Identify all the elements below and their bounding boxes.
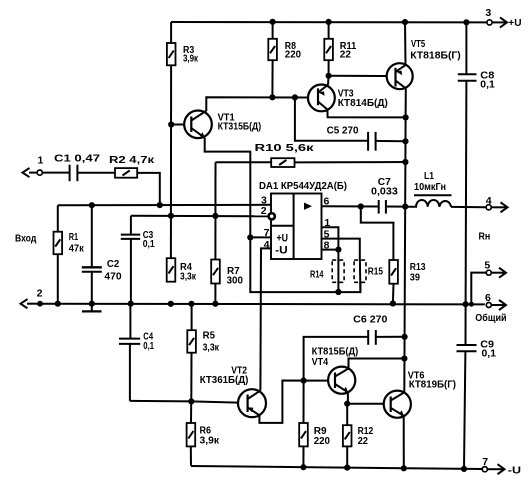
svg-text:3,9к: 3,9к	[200, 435, 220, 447]
svg-text:3,3к: 3,3к	[180, 271, 197, 283]
label R12 value	[358, 425, 374, 447]
node top rail C8	[463, 19, 469, 25]
node VT4 collector output col	[401, 355, 407, 361]
svg-text:0,1: 0,1	[143, 340, 154, 352]
label VT5 type	[410, 38, 461, 62]
label pin 3	[261, 195, 267, 207]
svg-text:39: 39	[410, 271, 420, 283]
label DA1 type	[259, 180, 347, 192]
wire VT5 emitter / output column	[404, 89, 406, 393]
capacitor C5	[368, 132, 376, 151]
label R2 value	[109, 154, 155, 166]
svg-text:1: 1	[38, 154, 44, 166]
label C3 value	[143, 229, 155, 250]
transistor VT3	[308, 85, 335, 112]
wire DA1 pin1	[322, 227, 339, 249]
wire +U top rail	[171, 21, 487, 23]
label R11 value	[340, 40, 357, 61]
node output col VT3	[403, 114, 409, 120]
resistor R15 (dashed)	[354, 260, 366, 282]
wire C6 branch	[304, 337, 405, 381]
label terminal 1	[38, 154, 44, 166]
label pin 2	[261, 205, 267, 217]
label pin 8	[324, 239, 330, 251]
transistor VT6	[384, 391, 411, 418]
label VT2 type	[200, 365, 249, 386]
label R8 value	[285, 40, 301, 61]
svg-text:0,1: 0,1	[143, 238, 155, 250]
capacitor C6	[368, 330, 376, 345]
svg-text:КТ819Б(Г): КТ819Б(Г)	[409, 379, 456, 391]
label C8 value	[480, 70, 495, 91]
node C6 output col	[402, 334, 408, 340]
node rail C2	[89, 301, 95, 307]
svg-text:R2 4,7к: R2 4,7к	[109, 154, 155, 166]
node R8 / VT1 collector	[269, 94, 275, 100]
svg-text:6: 6	[485, 292, 491, 304]
label R7 value	[227, 265, 243, 287]
terminal 2	[21, 299, 43, 308]
label R4 value	[180, 261, 197, 283]
node B R7	[212, 213, 218, 219]
terminal 3 (+U)	[487, 17, 507, 27]
svg-text:5: 5	[484, 259, 490, 271]
resistor R4	[167, 258, 176, 282]
svg-text:220: 220	[314, 435, 330, 447]
svg-text:2: 2	[261, 205, 267, 217]
label VT6 type	[408, 369, 456, 390]
label C4 value	[143, 330, 154, 352]
terminal 6 (Общий)	[486, 300, 506, 310]
label VT3 type	[338, 88, 388, 110]
svg-text:КТ818Б(Г): КТ818Б(Г)	[410, 50, 461, 62]
label Rн	[479, 230, 491, 242]
wire VT6 emitter to -U rail	[403, 416, 405, 468]
label pin 4	[264, 239, 270, 251]
svg-text:R1: R1	[69, 231, 79, 243]
node output col C5	[402, 138, 408, 144]
capacitor C2	[82, 267, 102, 271]
node top rail R8	[270, 19, 276, 25]
svg-text:DA1 КР544УД2А(Б): DA1 КР544УД2А(Б)	[259, 180, 347, 192]
wire R1 column	[57, 254, 59, 304]
op-amp DA1 box	[271, 194, 322, 260]
svg-text:+U: +U	[277, 232, 289, 244]
wire inverting node B (pin 2 net)	[131, 215, 269, 218]
label R3 value	[183, 44, 199, 65]
resistor R1	[54, 232, 63, 255]
transistor VT1	[184, 111, 212, 139]
svg-text:Вход: Вход	[15, 232, 37, 244]
node rail R5	[188, 301, 194, 307]
wire R12 column	[346, 404, 348, 468]
resistor R5	[187, 330, 196, 353]
wire VT1 base stub	[171, 124, 184, 126]
resistor R9	[299, 423, 308, 446]
svg-text:R10 5,6к: R10 5,6к	[255, 142, 315, 154]
resistor R6	[187, 423, 196, 446]
label terminal 5	[484, 259, 490, 271]
wire VT3 emitter riser	[327, 76, 330, 85]
inductor L1	[405, 195, 451, 207]
wire VT2 emitter to VT4 base	[259, 381, 328, 423]
wire DA1 pin7 stub	[250, 236, 271, 238]
svg-text:-U: -U	[508, 464, 521, 476]
wire C3 C4 column	[130, 216, 131, 401]
resistor R14 (dashed)	[332, 260, 344, 282]
node bottom rail R9	[300, 464, 306, 470]
wire VT1 collector to VT3 base	[206, 97, 307, 111]
svg-text:VT4: VT4	[312, 356, 329, 368]
label C1 value	[54, 152, 100, 164]
label C2 value	[104, 258, 121, 282]
resistor R10	[271, 158, 294, 167]
terminal 7 (-U)	[482, 464, 504, 474]
svg-text:КТ361Б(Д): КТ361Б(Д)	[200, 374, 249, 386]
svg-text:C2: C2	[107, 258, 119, 270]
svg-text:R15: R15	[368, 265, 383, 277]
label pin 5	[324, 228, 330, 240]
node bottom rail R12	[344, 465, 350, 471]
node rail C8 C9	[463, 301, 469, 307]
wire terminal1 to C1	[42, 172, 69, 174]
op-amp DA1 pin2 inversion bubble	[269, 213, 275, 219]
svg-text:6: 6	[324, 195, 330, 207]
node B R4	[168, 213, 174, 219]
wire R5 column	[190, 304, 192, 402]
wire VT1 emitter / DA1 pin7 / R14 R15 bottom	[205, 138, 361, 292]
label R6 value	[200, 424, 220, 446]
wire -U bottom rail	[191, 466, 482, 469]
label C5 value	[327, 125, 359, 137]
label VT1 type	[218, 111, 262, 132]
wire input node A (pin 3 net)	[58, 205, 271, 232]
transistor VT4	[328, 367, 355, 394]
node rail R1	[55, 301, 61, 307]
transistor VT2	[238, 389, 266, 417]
wire R15 lead through	[359, 260, 362, 292]
svg-text:0,033: 0,033	[371, 185, 398, 197]
svg-text:0,1: 0,1	[480, 78, 495, 90]
node rail R4	[168, 301, 174, 307]
wire R9 column	[302, 381, 304, 468]
label +U	[508, 17, 521, 29]
svg-text:C6 270: C6 270	[353, 313, 387, 325]
svg-text:22: 22	[358, 435, 369, 447]
terminal 1 (input)	[23, 168, 43, 177]
wire R14 lead through	[337, 250, 339, 293]
wire R13 offshoot	[361, 207, 394, 304]
svg-text:3: 3	[485, 7, 491, 19]
label C7 value	[371, 176, 398, 197]
node pin6 / R13 offshoot	[358, 203, 364, 209]
resistor R12	[343, 425, 352, 446]
label terminal 2	[37, 288, 43, 300]
wire terminal 5 riser	[471, 273, 486, 305]
svg-text:7: 7	[482, 456, 488, 468]
svg-text:300: 300	[227, 275, 243, 287]
resistor R8	[268, 39, 277, 60]
wire VT4 collector to output column	[349, 359, 405, 369]
svg-text:22: 22	[340, 49, 351, 61]
resistor R2	[115, 168, 137, 178]
svg-text:КТ814Б(Д): КТ814Б(Д)	[338, 97, 388, 109]
svg-text:2: 2	[37, 288, 43, 300]
svg-text:47к: 47к	[69, 242, 85, 254]
svg-text:4: 4	[264, 239, 270, 251]
wire R8 column	[271, 22, 273, 98]
wire C9 column	[464, 304, 466, 469]
resistor R11	[324, 39, 333, 60]
label R14	[310, 268, 324, 280]
label DA1 -U	[275, 245, 288, 257]
node pin1 pin8	[335, 247, 341, 253]
svg-text:R5: R5	[203, 330, 216, 342]
svg-text:7: 7	[264, 227, 270, 239]
wire VT3 base node to VT5 base	[329, 75, 387, 77]
svg-text:C1 0,47: C1 0,47	[54, 152, 100, 164]
node A R2	[157, 202, 163, 208]
svg-text:R14: R14	[310, 268, 324, 280]
node VT1 base	[168, 121, 174, 127]
label Общий	[475, 312, 506, 324]
label L1 value	[414, 170, 446, 193]
node top rail VT5	[402, 19, 408, 25]
svg-text:10мкГн: 10мкГн	[414, 181, 446, 193]
resistor R3	[167, 43, 176, 65]
svg-text:0,1: 0,1	[482, 347, 497, 359]
label pin 1	[324, 217, 330, 229]
node VT6 base / R12	[344, 401, 350, 407]
node VT4 base / R9 / C6	[301, 378, 307, 384]
terminal 4 (output)	[486, 202, 507, 212]
node rail R13	[390, 300, 396, 306]
node A C2	[89, 202, 95, 208]
svg-text:+U: +U	[508, 17, 521, 29]
wire feedback node to VT2 base	[130, 401, 238, 403]
svg-text:470: 470	[104, 270, 121, 282]
wire DA1 pin8	[322, 249, 339, 251]
wire R3 / VT1 base / node B / R4 column	[170, 22, 172, 258]
label VT4 type	[312, 345, 359, 367]
wire VT4 emitter to VT6 base	[348, 392, 384, 404]
label R13 value	[410, 261, 426, 284]
label terminal 4	[486, 195, 492, 207]
node output col R10	[402, 159, 408, 165]
capacitor C4	[119, 339, 140, 344]
wire R7 column	[214, 162, 216, 304]
label C6 value	[353, 313, 387, 325]
resistor R13	[389, 260, 398, 284]
label R5 value	[203, 330, 220, 354]
transistor VT5	[387, 63, 413, 89]
wire output (pin 6) row	[322, 205, 487, 208]
svg-text:C5 270: C5 270	[327, 125, 359, 137]
svg-text:220: 220	[285, 49, 301, 61]
svg-text:1: 1	[324, 217, 330, 229]
node rail R7	[212, 301, 218, 307]
terminal 5	[486, 268, 506, 278]
svg-text:Общий: Общий	[475, 312, 506, 324]
label C9 value	[480, 339, 496, 360]
wire R11 column	[328, 22, 330, 76]
wire R2 to node A drop	[137, 173, 160, 205]
node pin7	[247, 234, 253, 240]
node rail C3 C4	[128, 301, 134, 307]
svg-text:-U: -U	[275, 245, 288, 257]
capacitor C7	[379, 200, 386, 214]
label terminal 6	[485, 292, 491, 304]
node R14 bottom	[335, 289, 341, 295]
label pin 7	[264, 227, 270, 239]
svg-text:8: 8	[324, 239, 330, 251]
svg-text:3,9к: 3,9к	[183, 53, 199, 65]
wire VT3 collector to output column	[327, 110, 405, 118]
node R5 R6 feedback	[188, 398, 194, 404]
ground symbol	[82, 304, 102, 312]
label Вход	[15, 232, 37, 244]
svg-text:Rн: Rн	[479, 230, 491, 242]
wire DA1 pin4 to VT2 collector	[260, 248, 271, 390]
node output col L1	[402, 204, 408, 210]
wire C1 to R2	[78, 172, 115, 174]
node bottom rail VT6	[401, 465, 407, 471]
label R15	[368, 265, 383, 277]
svg-text:VT5: VT5	[411, 38, 425, 50]
wire C8 column	[465, 22, 468, 304]
wire R6 column	[190, 401, 192, 466]
wire DA1 pin5 to R15	[322, 239, 360, 260]
label pin 6	[324, 195, 330, 207]
capacitor C3	[121, 235, 140, 239]
node VT3 emitter / R11 / VT5 base	[326, 73, 332, 79]
svg-text:КТ315Б(Д): КТ315Б(Д)	[218, 121, 262, 133]
label R9 value	[314, 425, 330, 447]
label -U	[508, 464, 521, 476]
label terminal 7	[482, 456, 488, 468]
capacitor C1	[70, 165, 78, 182]
svg-text:3,3к: 3,3к	[203, 341, 220, 353]
capacitor C8	[458, 74, 477, 81]
wire C5 branch	[295, 97, 406, 141]
label DA1 +U	[277, 232, 289, 244]
wire C2 column	[91, 205, 93, 304]
wire ground rail (Общий)	[40, 303, 485, 306]
wire R10 feedback	[216, 161, 406, 163]
node rail terminal5 riser	[469, 302, 474, 307]
node C5 top	[292, 94, 298, 100]
svg-text:4: 4	[486, 195, 492, 207]
capacitor C9	[457, 345, 477, 351]
label R1 value	[69, 231, 85, 254]
wire VT5 collector to +U rail	[404, 22, 407, 65]
label R10 value	[255, 142, 315, 154]
resistor R7	[211, 260, 220, 284]
node top rail R11	[326, 19, 332, 25]
node bottom rail C9	[461, 466, 467, 472]
label terminal 3	[485, 7, 491, 19]
